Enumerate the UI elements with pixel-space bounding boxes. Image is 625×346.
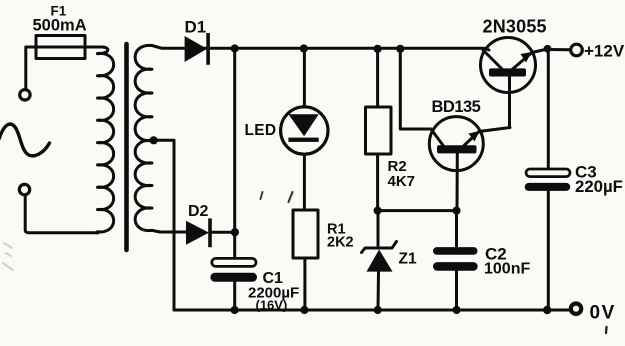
node: D2 cathode junction: [231, 228, 239, 236]
node: 0V junction R1: [300, 306, 308, 314]
transformer T1 secondary winding: [135, 45, 152, 230]
zener diode Z1: [362, 211, 397, 310]
svg-text:2N3055: 2N3055: [483, 17, 547, 37]
svg-text:(16V): (16V): [256, 298, 288, 313]
diode D1: [185, 33, 210, 65]
resistor R1: [293, 210, 318, 258]
svg-text:2K2: 2K2: [327, 235, 354, 251]
svg-text:LED: LED: [245, 122, 277, 139]
node: rail junction above C1: [231, 44, 239, 52]
node: +12V rail junction above C3: [544, 45, 552, 53]
wire: rectified bus down through D2 node to C1: [233, 49, 236, 311]
stray pen mark above R1: [289, 192, 293, 202]
wire: C3 branch: [547, 49, 550, 310]
stray pen mark below 0V: [605, 327, 608, 333]
node: 0V junction Z1: [374, 306, 382, 314]
svg-text:4K7: 4K7: [388, 173, 416, 190]
svg-text:D2: D2: [188, 203, 209, 220]
fuse F1: [36, 36, 85, 59]
wire: R2 branch: [376, 49, 379, 211]
node: rail junction above LED: [300, 44, 308, 52]
wire: LED/R1 branch: [303, 49, 307, 311]
faint smudge lower left: [3, 243, 13, 270]
svg-text:+12V: +12V: [584, 42, 625, 61]
terminal 0V: [571, 304, 581, 314]
wire: 0V bottom rail: [174, 309, 570, 312]
AC sine symbol: [0, 124, 50, 156]
transformer T1 primary winding: [96, 53, 114, 232]
transistor Q1 BD135: [429, 117, 510, 211]
node: zener/R2 junction: [374, 207, 382, 215]
terminal +12V: [571, 44, 583, 56]
node: transformer center tap: [150, 136, 158, 144]
wire: rail to +12V terminal: [548, 48, 571, 51]
node: 0V junction C2: [453, 306, 461, 314]
transformer core: [124, 44, 129, 250]
wire: center tap to 0V rail: [154, 140, 174, 310]
wire: secondary bottom to D2 anode: [152, 230, 186, 232]
wire: D2 cathode to C1 node: [212, 231, 235, 234]
svg-text:500mA: 500mA: [33, 17, 87, 35]
wire: C2 leads: [455, 211, 458, 310]
node: rail junction above BD135 collector: [396, 45, 404, 53]
wire: zener junction to BD135 base node: [378, 209, 457, 212]
wire: BD135 collector from rail: [400, 49, 443, 146]
AC terminal upper: [20, 90, 30, 100]
diode D2: [186, 218, 212, 247]
svg-text:0V: 0V: [590, 303, 616, 324]
svg-text:BD135: BD135: [432, 98, 481, 116]
transistor Q2 2N3055: [481, 38, 549, 94]
wire: AC upper lead through fuse to primary top: [26, 47, 108, 89]
node: 0V junction C1: [231, 306, 239, 314]
LED indicator: [281, 107, 328, 154]
capacitor C1: [210, 258, 257, 281]
svg-text:Z1: Z1: [399, 251, 417, 268]
node: 0V junction C3: [543, 306, 551, 314]
wire: AC lower lead to primary bottom: [25, 195, 98, 233]
svg-text:100nF: 100nF: [484, 261, 530, 278]
capacitor C3: [525, 169, 571, 191]
svg-text:D1: D1: [185, 18, 207, 37]
node: BD135 base / C2 junction: [452, 207, 460, 215]
AC terminal lower: [19, 184, 29, 194]
node: rail junction above R2: [374, 45, 382, 53]
wire: BD135 emitter to 2N3055 base: [508, 92, 511, 128]
wire: top rail from secondary to 2N3055 collector: [152, 46, 489, 51]
capacitor C2: [433, 247, 478, 271]
stray pen mark left of R1: [261, 192, 263, 199]
resistor R2: [366, 107, 392, 154]
svg-text:220µF: 220µF: [575, 177, 623, 196]
